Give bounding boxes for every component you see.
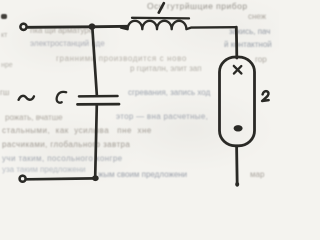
inductor L1 core bar <box>132 17 189 20</box>
wire bottom <box>27 177 95 181</box>
wire top <box>28 26 127 27</box>
wire right vertical <box>235 27 238 58</box>
terminal top-left <box>20 24 26 30</box>
wire lamp bottom <box>235 147 238 186</box>
label 2 <box>262 91 269 101</box>
junction node top <box>89 23 96 29</box>
dark cut-off mark at left edge <box>1 14 7 19</box>
capacitor C plate upper <box>79 95 118 98</box>
label 1 <box>159 3 164 12</box>
inductor L1 coil <box>121 21 236 29</box>
terminal bottom-left <box>20 176 26 182</box>
label C <box>57 92 67 103</box>
capacitor C plate lower <box>78 103 120 106</box>
junction node bottom <box>92 175 99 181</box>
lamp VL body <box>220 57 255 146</box>
lamp electrode dot <box>234 125 243 131</box>
capacitor C wire top <box>92 27 97 95</box>
lamp electrode x <box>234 66 242 74</box>
capacitor C wire bottom <box>95 105 97 177</box>
AC source symbol <box>19 96 34 100</box>
faint bleed-through page text <box>147 1 248 11</box>
